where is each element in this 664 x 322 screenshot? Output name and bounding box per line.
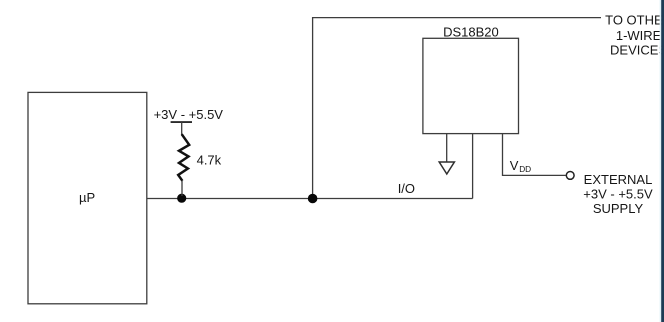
svg-text:DD: DD [519,164,531,174]
svg-text:TO OTHER: TO OTHER [605,12,664,27]
svg-text:DEVICES: DEVICES [610,42,664,57]
svg-text:1-WIRE: 1-WIRE [616,28,662,43]
svg-text:4.7k: 4.7k [197,152,222,167]
svg-text:µP: µP [79,190,95,205]
svg-text:V: V [510,158,519,173]
svg-text:+3V - +5.5V: +3V - +5.5V [583,187,653,202]
svg-text:SUPPLY: SUPPLY [593,201,644,216]
svg-text:EXTERNAL: EXTERNAL [584,172,653,187]
svg-text:I/O: I/O [398,181,415,196]
svg-text:+3V - +5.5V: +3V - +5.5V [154,107,224,122]
svg-text:DS18B20: DS18B20 [443,24,499,39]
